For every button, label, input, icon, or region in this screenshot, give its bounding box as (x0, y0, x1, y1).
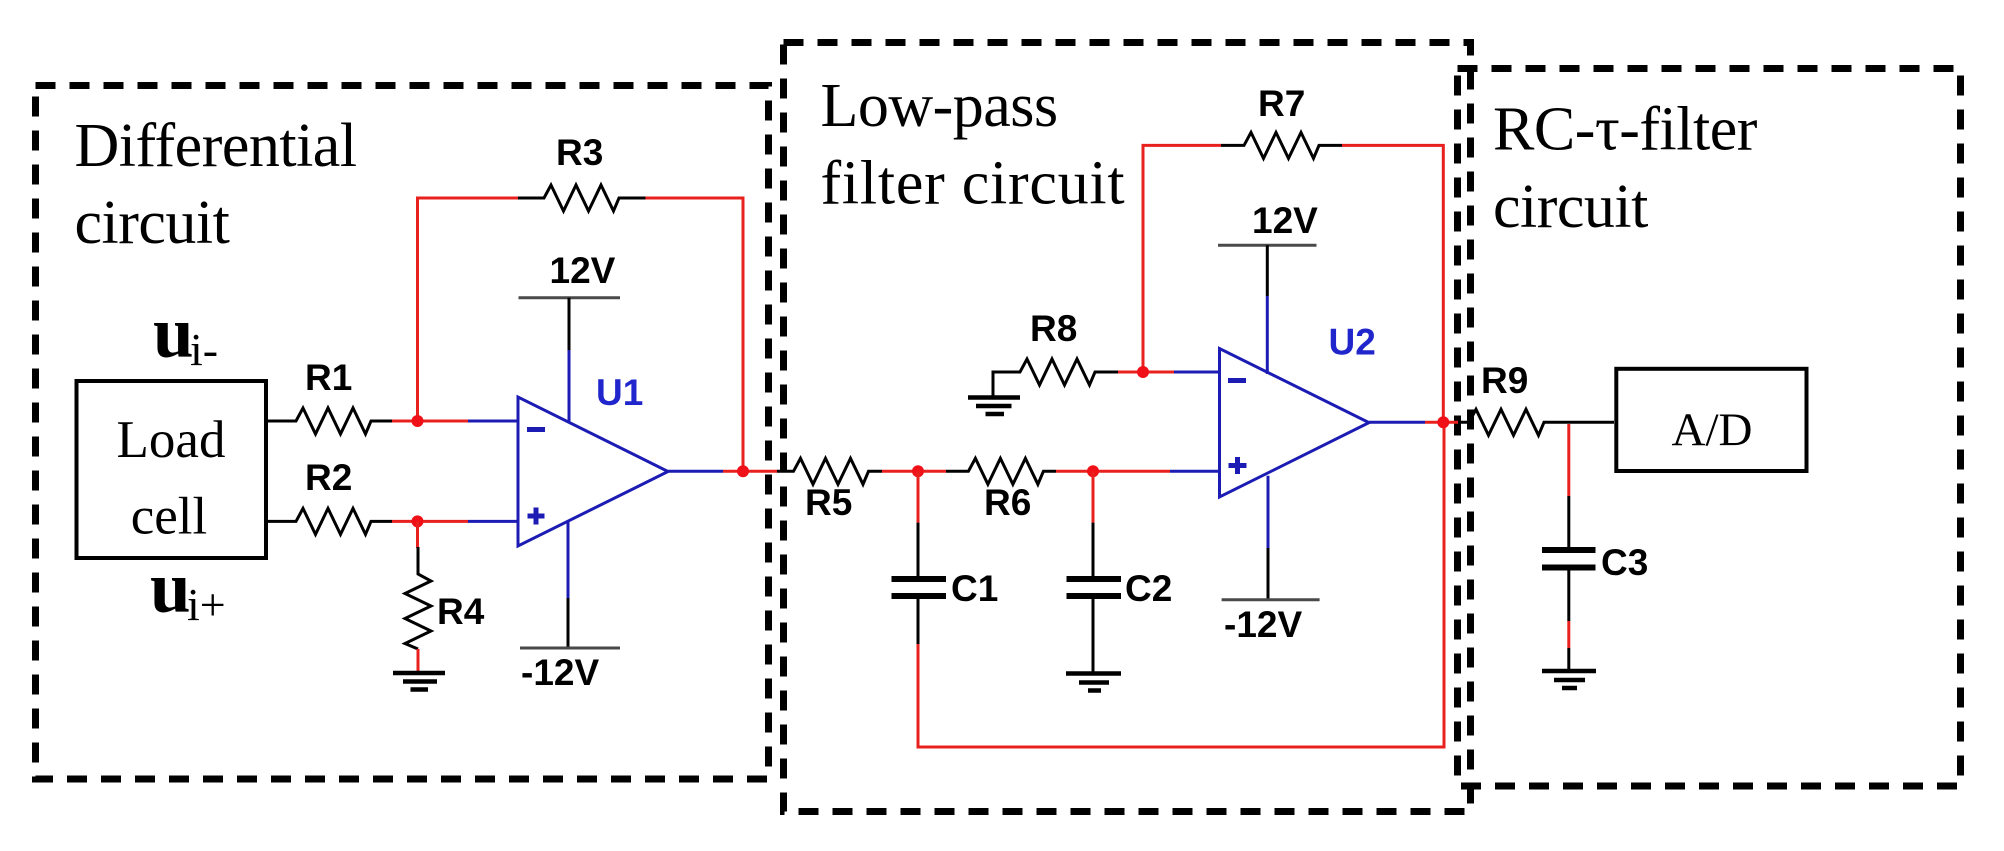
resistor R4 (vertical) (405, 547, 485, 649)
svg-text:u: u (153, 292, 194, 373)
resistor R2 (266, 457, 392, 534)
wire: node E to U2 minus input (1143, 371, 1174, 374)
ground (C3) (1542, 671, 1596, 688)
svg-text:R4: R4 (437, 591, 485, 632)
wire R4 to ground (red) (417, 649, 420, 672)
resistor R5 (777, 458, 882, 523)
wire: feedback node A up to R3 (red) (418, 198, 519, 421)
dashed box: Low-pass filter circuit (784, 43, 1471, 812)
svg-text:12V: 12V (550, 250, 616, 291)
resistor R1 (266, 357, 392, 434)
resistor R6 (946, 458, 1056, 523)
capacitor C2 (1067, 471, 1173, 671)
U1 +12V supply (519, 250, 621, 422)
svg-text:Differential: Differential (75, 112, 357, 180)
svg-text:circuit: circuit (75, 189, 230, 257)
wire: C3 to ground (red then black) (1567, 621, 1570, 648)
resistor R3 (518, 132, 646, 211)
svg-text:R6: R6 (984, 482, 1031, 523)
node B junction dot (412, 515, 424, 527)
svg-text:R1: R1 (305, 357, 352, 398)
wire: U2 output (1369, 421, 1425, 424)
svg-text:circuit: circuit (1493, 173, 1648, 241)
svg-text:Low-pass: Low-pass (821, 72, 1058, 140)
wire: U1 output (668, 470, 723, 473)
svg-text:R5: R5 (805, 482, 852, 523)
svg-text:C1: C1 (951, 568, 998, 609)
svg-text:R3: R3 (556, 132, 603, 173)
ground (R8) (968, 398, 1020, 415)
wire: node E up and across to R7 (red) (1143, 145, 1221, 372)
svg-text:-12V: -12V (521, 652, 599, 693)
svg-text:cell: cell (131, 488, 208, 546)
node A junction dot (412, 415, 424, 427)
wire: node B to U1 plus input (418, 520, 469, 523)
svg-text:R8: R8 (1030, 308, 1077, 349)
resistor R8 (993, 308, 1118, 396)
U2 +12V supply (1218, 200, 1318, 374)
svg-text:A/D: A/D (1672, 404, 1753, 456)
svg-text:C3: C3 (1601, 542, 1648, 583)
wire R1 to node A (red) (392, 420, 418, 423)
svg-text:RC-τ-filter: RC-τ-filter (1493, 96, 1758, 164)
A/D box (1616, 369, 1806, 471)
svg-text:U2: U2 (1329, 322, 1376, 363)
svg-text:12V: 12V (1252, 200, 1318, 241)
wire R6 to node D then U2 plus input (1056, 470, 1170, 473)
node D junction dot (1087, 465, 1099, 477)
ground (R4) (393, 673, 445, 690)
svg-text:Load: Load (117, 411, 226, 469)
dashed box: RC-tau-filter circuit (1458, 69, 1961, 787)
dashed box: Differential circuit (36, 86, 769, 780)
wire: node B down to R4 (red) (416, 521, 419, 548)
wire R2 to node B (red) (392, 520, 418, 523)
svg-text:U1: U1 (596, 372, 643, 413)
svg-text:i-: i- (190, 324, 218, 375)
node C junction dot (912, 465, 924, 477)
svg-text:C2: C2 (1125, 568, 1172, 609)
resistor R9 (1458, 360, 1614, 435)
svg-text:R7: R7 (1258, 83, 1305, 124)
wire R5 to node C (red) (882, 470, 918, 473)
node E junction dot (1137, 366, 1149, 378)
wire: R7 right down to U2 output node (red) (1342, 145, 1443, 422)
node: U2 output junction dot (1437, 416, 1449, 428)
capacitor C3 (1542, 424, 1648, 621)
wire: node A to U1 minus input (418, 420, 469, 423)
svg-text:u: u (150, 547, 191, 628)
svg-text:i+: i+ (187, 579, 226, 630)
capacitor C1 (892, 471, 999, 644)
wire: node C to R6 (red) (918, 470, 946, 473)
svg-text:filter circuit: filter circuit (821, 150, 1126, 218)
op-amp U1 (518, 372, 668, 546)
wire: R3 right to output column (red) (646, 198, 744, 471)
U1 -12V supply (520, 521, 620, 694)
node: U1 output junction dot (737, 465, 749, 477)
svg-text:R2: R2 (305, 457, 352, 498)
svg-text:R9: R9 (1481, 360, 1528, 401)
Load cell box (77, 381, 267, 558)
resistor R7 (1221, 83, 1342, 158)
wire: C1 bottom feedback loop (red) (918, 422, 1444, 747)
op-amp U2 (1220, 322, 1376, 498)
ground (C2) (1066, 674, 1121, 691)
wire R8 to node E (red) (1118, 371, 1143, 374)
svg-text:-12V: -12V (1224, 604, 1302, 645)
U2 -12V supply (1222, 476, 1320, 645)
